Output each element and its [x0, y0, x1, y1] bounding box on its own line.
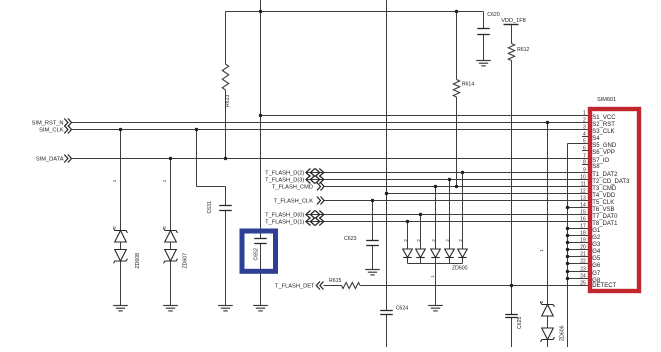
wire net T4_VDD to pin 12: [387, 193, 589, 195]
port T_FLASH_CMD: [317, 183, 324, 191]
wire jog SIM_CLK branch to C631: [197, 186, 226, 188]
wire C631 bottom lead to ground: [225, 211, 227, 306]
wire net T_FLASH_CMD to pin 11: [324, 186, 588, 188]
svg-text:10: 10: [580, 175, 586, 181]
wire pin 17 G1 wire: [568, 228, 589, 230]
wire net T_FLASH_DET to pin 25: [360, 285, 588, 287]
svg-text:T4_VDD: T4_VDD: [592, 193, 616, 199]
wire net T_FLASH_D(0) to pin 15: [306, 214, 588, 216]
wire net SIM_RST_N to pin 2: [72, 122, 589, 124]
wire ZD600 anode lead from D(3): [449, 180, 451, 250]
svg-text:T7_DAT0: T7_DAT0: [592, 214, 618, 220]
svg-text:8: 8: [583, 160, 586, 166]
junction D(3) / ZD600: [448, 178, 451, 181]
ground under C652: [253, 306, 268, 311]
capacitor C620: [477, 29, 490, 35]
wire ZD600 common cathode bus: [408, 263, 463, 265]
svg-text:T_FLASH_D(1): T_FLASH_D(1): [265, 220, 304, 226]
svg-text:VDD_1F8: VDD_1F8: [501, 18, 526, 24]
svg-text:T8_DAT1: T8_DAT1: [592, 221, 618, 227]
zener diode ZD608 upper: [114, 228, 128, 242]
svg-text:6: 6: [583, 146, 586, 152]
wire R613 bottom lead to SIM_DATA: [225, 90, 227, 159]
junction SIM_CLK / C631 branch: [195, 128, 198, 131]
wire net T_FLASH_CLK to pin 13: [324, 200, 588, 202]
svg-text:T_FLASH_D(0): T_FLASH_D(0): [265, 213, 304, 219]
zener diode ZD606 upper: [541, 302, 555, 316]
port T_FLASH_D(2): [306, 169, 324, 177]
svg-text:1: 1: [583, 111, 586, 117]
wire R612 bottom lead to DETECT and C625: [511, 61, 513, 315]
wire ZD600 anode lead from D(1): [407, 222, 409, 250]
ground under C631: [218, 306, 233, 311]
resistor R614: [453, 80, 459, 98]
svg-text:S1_VCC: S1_VCC: [592, 115, 616, 121]
svg-text:R612: R612: [517, 47, 530, 53]
port T_FLASH_D(3): [306, 176, 324, 184]
wire ZD600 cathode stub D(1): [407, 258, 409, 264]
svg-text:9: 9: [583, 168, 586, 174]
svg-text:T_FLASH_D(3): T_FLASH_D(3): [265, 178, 304, 184]
wire net T_FLASH_DET left segment: [324, 285, 342, 287]
wire ZD600 cathode stub CMD: [435, 258, 437, 264]
ground under ZD608: [113, 306, 128, 311]
junction D(1) / ZD600: [406, 220, 409, 223]
wire VCC column lower through C652 to ground: [260, 244, 262, 306]
svg-text:DETECT: DETECT: [592, 283, 616, 289]
wire ZD600 cathode stub D(2): [462, 258, 464, 264]
svg-text:ZD606: ZD606: [559, 325, 565, 341]
svg-text:T5_CLK: T5_CLK: [592, 200, 614, 206]
svg-text:16: 16: [580, 217, 586, 223]
junction T_FLASH_CLK / C623: [371, 199, 374, 202]
diode ZD600 e: [458, 249, 468, 258]
svg-text:C625: C625: [517, 316, 523, 329]
svg-text:15: 15: [580, 210, 586, 216]
svg-text:G3: G3: [592, 242, 601, 248]
junction G7 / ground bus: [566, 270, 569, 273]
zener diode ZD608 lower: [114, 250, 128, 264]
wire pin 20 G4 wire: [568, 249, 589, 251]
wire pin 22 G6 wire: [568, 263, 589, 265]
svg-text:T_FLASH_CLK: T_FLASH_CLK: [274, 199, 313, 205]
wire ZD606 bottom lead: [547, 340, 549, 348]
svg-text:20: 20: [580, 245, 586, 251]
svg-text:C631: C631: [207, 201, 213, 214]
wire net T_FLASH_D(3) to pin 10: [306, 179, 588, 181]
svg-text:S8: S8: [592, 164, 600, 170]
wire net SIM_DATA to pin 7: [72, 158, 589, 160]
junction G1 / ground bus: [566, 227, 569, 230]
svg-text:12: 12: [580, 189, 586, 195]
zener diode ZD607 lower: [164, 250, 178, 264]
svg-text:25: 25: [580, 281, 586, 287]
diode ZD600 a: [403, 249, 413, 258]
junction top rail / VCC column: [259, 10, 262, 13]
junction SIM_RST_N / ZD606: [546, 121, 549, 124]
junction DETECT / R612 / C625: [510, 284, 513, 287]
wire pin 24 G8 wire: [568, 278, 589, 280]
junction G4 / ground bus: [566, 248, 569, 251]
svg-text:G7: G7: [592, 271, 601, 277]
svg-text:24: 24: [580, 274, 586, 280]
svg-text:SIM_RST_N: SIM_RST_N: [32, 121, 64, 127]
svg-text:5: 5: [583, 139, 586, 145]
junction top rail / R614: [455, 10, 458, 13]
junction CMD / ZD600: [434, 185, 437, 188]
junction pin14 / ground bus: [566, 206, 569, 209]
wire ZD600 anode lead from D(0): [420, 215, 422, 250]
resistor R612: [508, 44, 514, 61]
diode ZD600 c: [431, 249, 441, 258]
wire ZD606 middle lead: [547, 316, 549, 328]
resistor R613: [222, 64, 228, 90]
diode ZD600 d: [445, 249, 455, 258]
svg-text:3: 3: [583, 125, 586, 131]
capacitor C624: [380, 311, 393, 315]
wire ZD600 anode lead from CMD: [435, 187, 437, 250]
svg-text:G6: G6: [592, 263, 601, 269]
wire ZD607 middle lead: [170, 242, 172, 250]
svg-text:C652: C652: [253, 248, 259, 261]
wire pin 18 G2 wire: [568, 235, 589, 237]
wire VCC column upper: [260, 0, 262, 239]
capacitor C623: [366, 241, 379, 246]
port T_FLASH_D(0): [306, 211, 324, 219]
capacitor C631: [219, 206, 232, 211]
svg-text:11: 11: [581, 182, 586, 188]
wire pin 14 T6_VSB wire: [568, 207, 589, 209]
wire C620 bottom lead to ground: [483, 35, 485, 61]
junction G6 / ground bus: [566, 262, 569, 265]
svg-text:T3_CMD: T3_CMD: [592, 186, 617, 192]
wire ZD608 bottom lead to ground: [120, 261, 122, 306]
svg-text:SIM_DATA: SIM_DATA: [36, 157, 64, 163]
zener diode ZD606 lower: [541, 328, 555, 342]
svg-text:G4: G4: [592, 249, 601, 255]
wire pin 19 G3 wire: [568, 242, 589, 244]
resistor R615: [342, 283, 361, 289]
svg-text:18: 18: [580, 231, 586, 237]
svg-text:T_FLASH_DET: T_FLASH_DET: [275, 284, 315, 290]
wire net T_FLASH_D(1) to pin 16: [306, 221, 588, 223]
wire ground bus from pin 5: [567, 144, 569, 348]
svg-text:S6_VPP: S6_VPP: [592, 150, 615, 156]
wire pin 23 G7 wire: [568, 271, 589, 273]
svg-text:S5_GND: S5_GND: [592, 143, 617, 149]
ground under C620: [476, 61, 491, 66]
svg-text:T1_DAT2: T1_DAT2: [592, 172, 618, 178]
svg-text:ZD608: ZD608: [135, 253, 141, 269]
svg-text:2: 2: [583, 118, 586, 124]
wire ZD606 top lead from SIM_RST_N: [547, 123, 549, 305]
wire C620 top lead: [483, 12, 485, 29]
svg-text:S2_RST: S2_RST: [592, 122, 615, 128]
wire C623 top lead from T_FLASH_CLK: [372, 201, 374, 241]
svg-text:21: 21: [580, 252, 586, 258]
wire ZD600 cathode stub D(3): [449, 258, 451, 264]
wire C631 top lead: [225, 187, 227, 206]
junction SIM_DATA / ZD607: [169, 157, 172, 160]
svg-text:T_FLASH_D(2): T_FLASH_D(2): [265, 171, 304, 177]
junction D(0) / ZD600: [419, 213, 422, 216]
wire R612 top lead from VDD_1F8: [511, 25, 513, 44]
wire net VCC to pin 1 S1_VCC: [261, 115, 589, 117]
junction CMD / R614: [455, 185, 458, 188]
svg-text:S3_CLK: S3_CLK: [592, 129, 614, 135]
highlight box around C652: [242, 231, 276, 271]
svg-text:22: 22: [580, 259, 586, 265]
wire R614 top lead: [456, 12, 458, 80]
port T_FLASH_CLK: [317, 197, 324, 205]
ground under ZD607: [163, 306, 178, 311]
wire pin 21 G5 wire: [568, 256, 589, 258]
junction G3 / ground bus: [566, 241, 569, 244]
svg-text:17: 17: [580, 224, 586, 230]
diode ZD600 b: [416, 249, 426, 258]
wire ZD608 middle lead: [120, 242, 122, 250]
svg-text:SIM_CLK: SIM_CLK: [39, 128, 64, 134]
svg-text:S4: S4: [592, 136, 600, 142]
svg-text:ZD600: ZD600: [452, 266, 468, 272]
port T_FLASH_D(1): [306, 218, 324, 226]
wire ZD600 bus to ground: [435, 264, 437, 306]
svg-text:T2_CD_DAT3: T2_CD_DAT3: [592, 179, 630, 185]
wire R613 top lead: [225, 12, 227, 65]
port SIM_CLK: [64, 126, 71, 134]
wire ZD600 cathode stub D(0): [420, 258, 422, 264]
junction D(2) / ZD600: [461, 171, 464, 174]
wire pin 6 stub: [582, 150, 588, 152]
svg-text:G5: G5: [592, 256, 601, 262]
svg-text:R614: R614: [462, 82, 475, 88]
wire top VCC rail: [226, 11, 484, 13]
svg-text:G1: G1: [592, 228, 601, 234]
wire C623 bottom lead to ground: [372, 246, 374, 270]
wire net T_FLASH_D(2) to pin 9: [306, 172, 588, 174]
svg-text:13: 13: [580, 196, 586, 202]
capacitor C652: [254, 239, 267, 244]
wire VDD column lower below C624: [386, 315, 388, 348]
svg-text:4: 4: [583, 132, 586, 138]
svg-text:G2: G2: [592, 235, 601, 241]
connector SIM601 red highlight box: [590, 109, 639, 291]
wire net SIM_CLK to pin 3: [72, 129, 589, 131]
wire ZD600 anode lead from D(2): [462, 173, 464, 250]
svg-text:R615: R615: [329, 278, 342, 284]
ground under C623: [365, 270, 380, 275]
junction SIM_CLK / ZD608: [119, 128, 122, 131]
power symbol VDD_1F8: [504, 24, 519, 26]
port SIM_RST_N: [64, 119, 71, 127]
wire pin 4 stub: [582, 136, 588, 138]
wire pin 8 stub: [582, 164, 588, 166]
ground under ZD600: [428, 306, 443, 311]
svg-text:R613: R613: [225, 94, 231, 107]
port T_FLASH_DET: [316, 282, 323, 290]
svg-text:SIM601: SIM601: [597, 97, 616, 103]
junction G5 / ground bus: [566, 255, 569, 258]
wire C625 bottom lead: [511, 318, 513, 348]
wire R614 bottom lead to CMD: [456, 97, 458, 187]
wire SIM_CLK branch down: [196, 130, 198, 187]
wire VDD column upper: [386, 0, 388, 311]
svg-text:19: 19: [580, 238, 586, 244]
svg-text:C624: C624: [396, 306, 409, 312]
wire ZD607 top lead from SIM_DATA: [170, 159, 172, 231]
port SIM_DATA: [64, 155, 71, 163]
junction G8 / ground bus: [566, 277, 569, 280]
wire ZD607 bottom lead to ground: [170, 261, 172, 306]
svg-text:C620: C620: [487, 12, 500, 18]
junction VCC column / pin1 net: [259, 114, 262, 117]
zener diode ZD607 upper: [164, 228, 178, 242]
wire pin 5 S5_GND wire: [568, 143, 589, 145]
svg-text:14: 14: [580, 203, 586, 209]
svg-text:C623: C623: [344, 236, 357, 242]
junction T4_VDD / VDD column: [385, 192, 388, 195]
svg-text:T6_VSB: T6_VSB: [592, 207, 614, 213]
svg-text:23: 23: [580, 267, 586, 273]
svg-text:T_FLASH_CMD: T_FLASH_CMD: [272, 185, 313, 191]
capacitor C625: [505, 315, 518, 318]
junction SIM_DATA / R613: [224, 157, 227, 160]
junction G2 / ground bus: [566, 234, 569, 237]
svg-text:ZD607: ZD607: [182, 253, 188, 269]
wire ZD608 top lead from SIM_CLK: [120, 130, 122, 231]
